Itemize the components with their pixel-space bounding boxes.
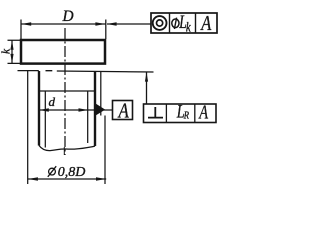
thread minor line right [87, 91, 89, 143]
centerline (vertical dash-dot axis) [64, 28, 66, 155]
extra extension under step [100, 71, 102, 116]
svg-text:k: k [186, 19, 191, 34]
dimension d arrow left [39, 108, 49, 111]
dimension 0.8D arrow right [96, 177, 106, 180]
svg-text:D: D [61, 8, 73, 25]
dimension 0.8D arrow left [28, 177, 38, 180]
perpendicularity frame dividers [166, 104, 194, 123]
svg-text:A: A [117, 100, 129, 123]
svg-text:A: A [198, 100, 208, 123]
perpendicularity symbol [148, 107, 163, 118]
dimension k arrow bottom [10, 54, 13, 63]
concentricity symbol outer circle [153, 16, 167, 30]
dimension k arrow top [10, 41, 13, 50]
concentricity frame box [151, 13, 217, 33]
centerline tick below break [63, 147, 65, 155]
thread start line [39, 90, 95, 92]
dimension k extension lines [8, 40, 21, 63]
perpendicularity frame box [144, 104, 217, 123]
svg-text:k: k [1, 48, 13, 54]
phi symbol [172, 19, 179, 28]
break line at shank bottom [39, 146, 95, 151]
dimension D arrow right [95, 22, 105, 25]
shank left outline [38, 71, 40, 146]
bolt head outline [21, 40, 105, 64]
svg-text:R: R [183, 110, 189, 122]
leader up arrowhead [145, 72, 148, 81]
extension line 0.8D left [27, 71, 29, 184]
bearing face line (under head, extended right to leader) [18, 71, 154, 72]
leader from perpendicularity frame (stem) [146, 73, 148, 105]
leader arrowhead [107, 22, 117, 25]
dimension d arrow right [79, 108, 89, 111]
thread minor line left [44, 91, 46, 148]
dimension 0.8D line [28, 178, 107, 180]
concentricity symbol inner circle [157, 20, 163, 26]
shank right outline [94, 71, 96, 146]
leader to concentricity frame [107, 23, 151, 25]
dimension D extension lines [21, 20, 106, 40]
label dia 0,8D [49, 168, 56, 175]
datum A filled triangle [96, 104, 105, 116]
extension line 0.8D right [104, 116, 106, 185]
dimension d line [39, 109, 113, 111]
svg-text:d: d [48, 94, 55, 109]
svg-text:A: A [200, 12, 212, 35]
concentricity frame dividers [170, 13, 196, 33]
dimension k line [11, 40, 13, 63]
dimension D arrow left [21, 22, 31, 25]
svg-text:0,8D: 0,8D [58, 165, 86, 180]
datum A box [113, 101, 133, 120]
dimension D line [21, 23, 106, 25]
